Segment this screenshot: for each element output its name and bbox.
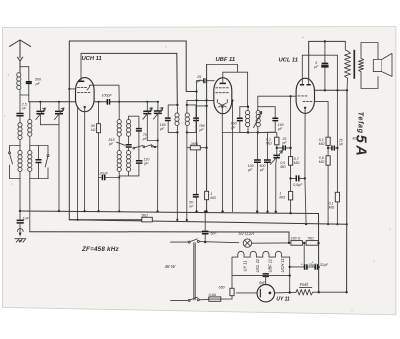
antenna bbox=[10, 40, 31, 73]
svg-text:pF: pF bbox=[35, 82, 41, 86]
tube UY11 electrodes bbox=[260, 290, 271, 297]
svg-text:+: + bbox=[311, 261, 313, 265]
band switch S2 oscillator bbox=[133, 145, 157, 149]
svg-text:5V 0,2A: 5V 0,2A bbox=[239, 231, 255, 236]
wire 0,6M to rail bbox=[327, 165, 329, 224]
node tone bbox=[327, 147, 329, 149]
resistor 1M af bbox=[289, 192, 293, 200]
wire triode grid to bus bbox=[91, 85, 119, 102]
svg-text:0,6A: 0,6A bbox=[209, 293, 217, 297]
switch gang link bbox=[194, 243, 195, 300]
resistor 650 bbox=[230, 288, 234, 295]
resistor 0,1M tone bbox=[326, 137, 330, 145]
inductor osc A lower bbox=[117, 151, 121, 212]
wire osc top link bbox=[129, 116, 139, 128]
node chain mid bbox=[303, 242, 305, 244]
resistor 0,6M bbox=[326, 156, 330, 165]
wire electrolytic rail bbox=[290, 266, 319, 268]
inductor L4 second column lower bbox=[28, 146, 32, 179]
resistor 5k bbox=[142, 217, 153, 222]
wire heater return rail bbox=[30, 232, 289, 243]
node resistor chain left bbox=[288, 242, 290, 244]
node UCL cathode bbox=[304, 107, 306, 109]
svg-text:MΩ: MΩ bbox=[266, 142, 272, 146]
node UBF cathode bbox=[221, 106, 223, 108]
trimmer capacitor C-t2 bbox=[55, 102, 65, 125]
wire cap110 down bbox=[119, 163, 139, 176]
wire heater left drop with 650 resistor bbox=[231, 276, 233, 299]
node B+ rail cross bbox=[346, 223, 348, 225]
wire UCL grid2 line bbox=[314, 101, 328, 137]
node osc A ground bbox=[118, 210, 120, 212]
node switch line ground bbox=[156, 210, 158, 212]
svg-text:Feld: Feld bbox=[300, 282, 309, 287]
wire trimmer link bbox=[147, 140, 157, 142]
svg-text:MΩ: MΩ bbox=[279, 196, 285, 200]
wire screen rail sloped bbox=[69, 220, 347, 225]
node grid leak mid bbox=[289, 147, 291, 149]
wire IFT1 bottoms down bbox=[177, 132, 187, 220]
wire grid bus y101.8 bbox=[29, 101, 158, 103]
node detector out bbox=[276, 147, 278, 149]
wire grid return rail bbox=[206, 65, 208, 212]
capacitor 25nF tone bbox=[328, 146, 337, 151]
node fb rail bbox=[336, 223, 338, 225]
capacitor 25pF grid bbox=[197, 78, 215, 83]
inductor L3 second column upper bbox=[28, 102, 32, 146]
svg-text:5nF: 5nF bbox=[210, 231, 217, 235]
node 1M ground bbox=[205, 210, 207, 212]
capacitor 32uF bbox=[315, 264, 317, 270]
wire UBF right rail bbox=[232, 101, 234, 212]
node electrolytic taps bbox=[289, 266, 291, 268]
svg-text:ZF=458 kHz: ZF=458 kHz bbox=[81, 246, 119, 253]
svg-text:UBF 11: UBF 11 bbox=[216, 57, 236, 63]
node switch top bbox=[204, 241, 206, 243]
inductor L2 antenna lower bbox=[18, 146, 22, 179]
svg-text:5kΩ: 5kΩ bbox=[141, 214, 148, 218]
wire rail A corner to UBF bbox=[186, 41, 196, 92]
node screen taps bbox=[324, 89, 326, 91]
IF transformer 2 left tank bbox=[237, 107, 250, 133]
node IFT2 bottom junctions bbox=[247, 131, 249, 133]
node switch to line bbox=[154, 146, 156, 148]
IF transformer 1 right tank bbox=[185, 105, 199, 132]
svg-text:pF: pF bbox=[108, 142, 114, 146]
tube UCL11 envelope bbox=[296, 78, 314, 113]
svg-text:UCL 11: UCL 11 bbox=[255, 259, 260, 273]
node tone right bbox=[336, 147, 338, 149]
capacitor 515pF padder bbox=[126, 145, 132, 147]
svg-text:32µF: 32µF bbox=[320, 263, 329, 267]
wire audio takeoff up bbox=[258, 96, 297, 107]
node pot ground bbox=[275, 211, 277, 213]
svg-text:0,5µF: 0,5µF bbox=[293, 183, 303, 187]
svg-text:100pF: 100pF bbox=[102, 94, 113, 98]
svg-text:650: 650 bbox=[219, 285, 225, 289]
node chain right bbox=[317, 242, 319, 244]
wire grid cap line bbox=[197, 81, 207, 212]
tube UCH11 envelope bbox=[76, 78, 95, 112]
svg-text:MΩ: MΩ bbox=[329, 206, 335, 210]
node right rail top bbox=[231, 99, 233, 101]
node cathode ground bbox=[221, 210, 223, 212]
node diode crossings bbox=[196, 99, 198, 101]
wire left band box bbox=[10, 146, 21, 212]
wire diode line bbox=[187, 100, 214, 105]
node at 91.5 bbox=[196, 90, 198, 92]
wire trimmer bottoms bbox=[40, 125, 59, 211]
svg-text:2MΩ: 2MΩ bbox=[190, 142, 199, 146]
IF transformer 1 left tank bbox=[165, 105, 179, 132]
node IFT1 top left bbox=[176, 104, 178, 106]
wire B+ vertical right bbox=[346, 90, 348, 292]
wire UCL box top bbox=[302, 54, 337, 56]
tube UBF11 envelope bbox=[214, 78, 232, 114]
wire UCL right box side bbox=[336, 55, 338, 224]
svg-text:UY 11: UY 11 bbox=[242, 261, 247, 272]
svg-text:MΩ: MΩ bbox=[210, 196, 216, 200]
svg-text:pF: pF bbox=[159, 127, 165, 131]
svg-text:pF: pF bbox=[281, 141, 287, 145]
wire to node bbox=[327, 145, 329, 155]
svg-text:UCH 11: UCH 11 bbox=[280, 258, 285, 272]
antenna trap coil bbox=[17, 73, 21, 95]
wire trimmer3 chain bbox=[143, 102, 153, 141]
resistor 0,1M fb bbox=[335, 192, 339, 202]
band switch S1a bbox=[9, 146, 13, 179]
capacitor 2,5nF series bbox=[16, 114, 23, 123]
transformer T1 secondary bbox=[359, 43, 379, 89]
heater chain humps bbox=[232, 251, 290, 292]
inductor osc B lower bbox=[127, 147, 131, 176]
transformer T1 primary bbox=[345, 41, 351, 90]
node grid tap bbox=[68, 88, 70, 90]
svg-text:UBF 11: UBF 11 bbox=[268, 259, 273, 273]
node UY out bbox=[289, 291, 291, 293]
node 50nF ground bbox=[195, 210, 197, 212]
wire UCL screen rail bbox=[314, 89, 347, 91]
svg-text:Tefag: Tefag bbox=[356, 112, 363, 134]
svg-text:MΩ: MΩ bbox=[280, 165, 286, 169]
label Feld underline bbox=[299, 286, 311, 288]
svg-text:5A: 5A bbox=[352, 135, 368, 159]
resistor 0,7M bbox=[289, 157, 293, 166]
capacitor 70pF bbox=[136, 129, 142, 131]
node trimmer link bbox=[157, 139, 159, 141]
capacitor 110pF bbox=[136, 161, 143, 163]
potentiometer 0,5M volume bbox=[270, 151, 282, 212]
transformer T1 core bbox=[353, 50, 355, 79]
band switch S1b bbox=[45, 146, 49, 179]
svg-text:1nF: 1nF bbox=[23, 217, 30, 221]
svg-text:MΩ: MΩ bbox=[319, 160, 325, 164]
svg-text:pF: pF bbox=[259, 168, 265, 172]
wire UCH cathode down bbox=[84, 107, 86, 211]
node 400pF ground bbox=[266, 211, 268, 213]
node trimmer ground bbox=[58, 210, 60, 212]
svg-text:pF: pF bbox=[247, 168, 253, 172]
node grid leak top bbox=[290, 95, 292, 97]
node 0,6M rail bbox=[327, 223, 329, 225]
wire trap box bbox=[20, 67, 29, 113]
svg-text:48 W: 48 W bbox=[165, 264, 176, 269]
wire chain mid down bbox=[303, 243, 305, 267]
svg-text:76Ω: 76Ω bbox=[307, 237, 314, 241]
wire grid leak UCL bbox=[290, 96, 292, 213]
wire IFT1 feed from rail B bbox=[176, 53, 179, 105]
ground chassis symbol bbox=[15, 229, 26, 243]
svg-text:180 Ω: 180 Ω bbox=[291, 237, 301, 241]
switch S3b mains bottom bbox=[171, 297, 209, 301]
wire bus corner down bbox=[318, 214, 320, 293]
svg-text:pF: pF bbox=[277, 127, 283, 131]
svg-text:MΩ: MΩ bbox=[294, 161, 300, 165]
tube UCL11 electrodes bbox=[298, 79, 312, 101]
wire 5nF line bbox=[232, 275, 290, 277]
dust specks bbox=[4, 37, 391, 311]
wire grid to tube bbox=[69, 88, 76, 90]
svg-text:UCH 11: UCH 11 bbox=[82, 56, 102, 62]
wire fuse to 650 bbox=[221, 298, 232, 300]
wire antenna trap to bus corner bbox=[28, 95, 30, 102]
resistor Feld field coil bbox=[296, 289, 347, 295]
capacitor 50nF avc bbox=[193, 195, 199, 197]
node IFT2 top left bbox=[247, 106, 249, 108]
inductor osc B upper bbox=[127, 116, 131, 144]
wire lamp to resistors bbox=[252, 242, 289, 244]
IF transformer 2 right tank bbox=[254, 107, 279, 133]
node 1M af ground bbox=[289, 212, 291, 214]
node heater junction bbox=[289, 274, 291, 276]
node IFT1 left foot bbox=[176, 219, 178, 221]
svg-text:kΩ: kΩ bbox=[91, 128, 96, 132]
inductor L1 antenna upper bbox=[18, 123, 22, 146]
wire UCL left plate bbox=[301, 55, 303, 85]
capacitor 20uF cathode bbox=[99, 175, 120, 181]
speaker bbox=[373, 53, 392, 76]
node 100pF ground bbox=[256, 210, 258, 212]
resistor 2M grid leak bbox=[187, 146, 207, 150]
node 2M right bbox=[205, 147, 207, 149]
capacitor 5nF rectifier bbox=[263, 274, 269, 285]
wire main ground bus bbox=[20, 211, 319, 214]
node bus taps bbox=[39, 101, 41, 103]
wire resistor to node bbox=[276, 145, 278, 155]
switch S3a mains top bbox=[171, 239, 239, 243]
wire label leader bbox=[117, 142, 126, 145]
wire left rail A top bbox=[69, 41, 186, 220]
node IFT1 top right bbox=[186, 104, 188, 106]
node UCH cathode bbox=[84, 106, 86, 108]
node IFT1 right foot bbox=[186, 219, 188, 221]
capacitor 25pF coupling bbox=[277, 145, 291, 150]
svg-text:pF: pF bbox=[143, 162, 149, 166]
node 5uF top bbox=[324, 40, 326, 42]
wire UBF box bbox=[207, 65, 238, 73]
capacitor 400pF detector bbox=[264, 133, 271, 212]
resistor 0,1M detector bbox=[275, 137, 279, 145]
resistor 1M bbox=[205, 191, 209, 199]
fuse 0,6A bbox=[209, 297, 221, 301]
resistor 76ohm bbox=[306, 241, 318, 246]
resistor 50k bbox=[97, 102, 101, 211]
capacitor 100pF detector bbox=[254, 133, 261, 212]
node cap ends bbox=[289, 177, 291, 179]
wire UCL cathode down bbox=[305, 108, 306, 224]
node 5nF top bbox=[204, 210, 206, 212]
capacitor to chassis bbox=[17, 211, 24, 233]
wire trimmer4 chain bbox=[153, 102, 163, 212]
wire cap70 down bbox=[138, 131, 140, 160]
trimmer capacitor C-t1 bbox=[36, 102, 46, 125]
node IFT1 bottom right bbox=[186, 131, 188, 133]
wire right band box bbox=[30, 146, 48, 232]
resistor 180ohm bbox=[291, 241, 303, 246]
wire diode load line bbox=[222, 133, 276, 138]
capacitor 0,5uF cathode UCL bbox=[291, 175, 305, 181]
wire UY right bbox=[275, 291, 297, 294]
capacitor 16uF bbox=[305, 264, 307, 270]
svg-text:MΩ: MΩ bbox=[319, 142, 325, 146]
node ground junction bbox=[19, 210, 21, 212]
capacitor 5uF bbox=[322, 41, 329, 90]
svg-text:UY 11: UY 11 bbox=[276, 297, 290, 303]
wire UY left bbox=[237, 292, 258, 294]
node UCL cathode rail bbox=[305, 223, 307, 225]
wire UBF cathode down bbox=[221, 107, 223, 212]
tube UBF11 electrodes bbox=[216, 83, 229, 107]
svg-text:pF: pF bbox=[230, 126, 236, 130]
svg-text:pF: pF bbox=[198, 128, 204, 132]
node Feld rail taps bbox=[318, 291, 320, 293]
capacitor 5nF switch bbox=[202, 212, 209, 243]
wire osc grid pin down bbox=[77, 105, 79, 220]
inductor osc A upper bbox=[117, 102, 121, 151]
wire B+ rail top right bbox=[309, 41, 346, 84]
capacitor 100pF series bbox=[107, 99, 109, 105]
node 20uF tap bbox=[118, 176, 120, 178]
node at 105.9 bbox=[205, 105, 207, 107]
svg-text:UCL 11: UCL 11 bbox=[279, 58, 298, 64]
node 50k ground bbox=[97, 210, 99, 212]
node cathode ground bbox=[83, 210, 85, 212]
svg-text:+: + bbox=[301, 262, 303, 266]
lamp 5V 0,2A bbox=[243, 239, 251, 247]
tube UCH11 electrodes bbox=[78, 81, 92, 92]
node rail B foot bbox=[77, 219, 79, 221]
svg-text:20µF: 20µF bbox=[99, 172, 109, 176]
wire UBF plate to IFT2 bbox=[223, 72, 248, 107]
wire left rail B bbox=[81, 52, 177, 54]
node IFT1 bottom left bbox=[176, 131, 178, 133]
antenna trap capacitor 500pF bbox=[26, 67, 32, 95]
tube UY11 rectifier bbox=[257, 285, 274, 302]
wire UCH plate to rail A bbox=[80, 53, 82, 81]
svg-text:pF: pF bbox=[196, 79, 202, 83]
capacitor padder right box bbox=[36, 146, 42, 179]
